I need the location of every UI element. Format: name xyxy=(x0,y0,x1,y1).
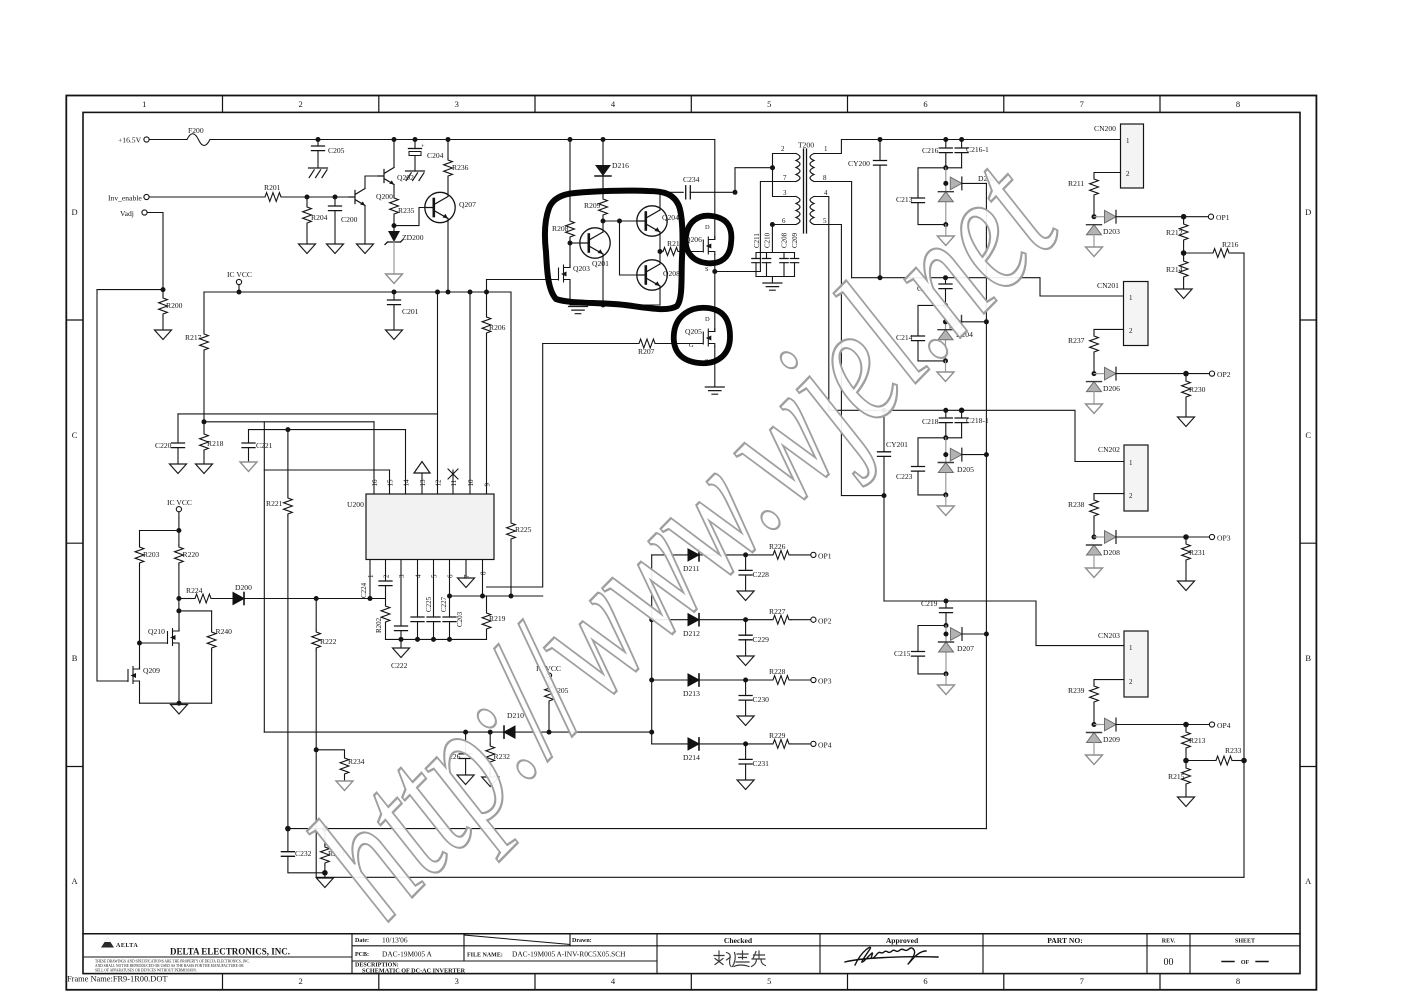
svg-text:C215: C215 xyxy=(894,649,911,658)
svg-text:CN203: CN203 xyxy=(1098,631,1120,640)
mosfet Q206 xyxy=(685,224,715,273)
svg-text:1: 1 xyxy=(367,574,375,578)
pin 5 capacitor C227 xyxy=(427,560,448,640)
column numbers top xyxy=(142,99,1240,109)
wire CN203 pin2 to R239 xyxy=(1094,680,1124,684)
svg-text:C224: C224 xyxy=(360,582,368,598)
svg-text:R240: R240 xyxy=(216,627,233,636)
node OP2 xyxy=(1183,371,1189,377)
wire Q207 emitter to IC VCC rail xyxy=(447,219,449,293)
wire T200 pin2 pin3 xyxy=(773,154,797,197)
svg-text:3: 3 xyxy=(398,574,406,578)
svg-text:5: 5 xyxy=(767,99,771,109)
chassis ground under C204 xyxy=(406,171,425,181)
svg-text:D207: D207 xyxy=(957,644,974,653)
wire pin8 net up to R207 xyxy=(487,344,543,588)
svg-text:CY200: CY200 xyxy=(848,159,870,168)
capacitor C216-1 xyxy=(955,140,989,168)
hand-drawn marker blob around Q201 Q204 Q208 xyxy=(545,191,683,310)
ground under R234 xyxy=(336,781,353,791)
svg-text:R221: R221 xyxy=(266,499,283,508)
wire D204 to feedback bus xyxy=(962,321,987,323)
node R210 xyxy=(658,249,663,254)
resistor R240 xyxy=(207,611,232,703)
ground under C200 xyxy=(327,244,344,254)
node D204 anode xyxy=(943,319,948,324)
capacitor C205 xyxy=(312,140,345,169)
node rail dots xyxy=(316,137,606,142)
node R203 R220 xyxy=(176,528,181,533)
svg-text:R206: R206 xyxy=(489,323,506,332)
svg-text:D208: D208 xyxy=(1103,548,1120,557)
IC VCC rail xyxy=(204,291,511,293)
node CY201 top xyxy=(882,408,887,413)
svg-text:SCHEMATIC OF DC-AC INVERTER: SCHEMATIC OF DC-AC INVERTER xyxy=(362,968,466,975)
wire D214 to OP4 row xyxy=(699,743,771,745)
zener diode ZD200 xyxy=(385,226,424,274)
svg-text:C209: C209 xyxy=(791,232,799,248)
svg-text:C: C xyxy=(72,430,78,440)
connector CN202 xyxy=(1098,445,1148,511)
pin 4 capacitor C225 xyxy=(411,560,433,640)
title block verticals xyxy=(352,934,1190,974)
svg-text:1: 1 xyxy=(1126,137,1130,145)
svg-text:R220: R220 xyxy=(183,550,200,559)
svg-text:7: 7 xyxy=(463,574,471,578)
terminal Vadj xyxy=(120,209,147,218)
capacitor C230 xyxy=(739,680,769,716)
wire midpoint to Q205 drain xyxy=(714,272,716,332)
title block frame xyxy=(83,933,1300,935)
wire T200 pin1 to rail xyxy=(814,140,1121,154)
svg-text:11: 11 xyxy=(450,479,458,486)
svg-text:C205: C205 xyxy=(328,146,345,155)
node C218 dots xyxy=(943,408,964,441)
wire D210 row xyxy=(264,731,651,733)
pin 10 xyxy=(467,292,475,494)
diode D204 xyxy=(950,316,973,340)
ground under C220 xyxy=(170,464,187,474)
zener below D206 xyxy=(1087,382,1102,392)
svg-text:2: 2 xyxy=(1129,327,1133,335)
transistor Q202 xyxy=(378,168,414,185)
resistor R203 xyxy=(135,531,160,644)
svg-text:3: 3 xyxy=(455,976,459,986)
capacitor C208 xyxy=(780,232,789,276)
row letters left xyxy=(72,207,79,886)
ground under C201 xyxy=(386,330,403,340)
pin 15 xyxy=(387,470,395,494)
svg-text:C230: C230 xyxy=(753,695,770,704)
terminal IC VCC left xyxy=(167,498,192,531)
capacitor C229 xyxy=(739,620,769,656)
wire gate drive branch xyxy=(263,422,265,732)
resistor R202 xyxy=(375,599,390,640)
svg-text:15: 15 xyxy=(387,479,395,487)
resistor R234 xyxy=(314,747,365,781)
resistor R220 xyxy=(175,531,200,599)
svg-text:C218-1: C218-1 xyxy=(966,416,989,425)
resistor R236 xyxy=(444,140,469,197)
ground under R215 xyxy=(1178,797,1195,807)
capacitor C216 xyxy=(922,140,952,168)
svg-text:CN201: CN201 xyxy=(1097,281,1119,290)
node C216 junction xyxy=(943,165,948,170)
svg-text:R222: R222 xyxy=(320,637,337,646)
terminal OP1 out xyxy=(811,552,832,561)
diode D206 xyxy=(1094,367,1120,393)
diode D213 xyxy=(652,674,700,698)
svg-text:PCB:: PCB: xyxy=(355,952,369,958)
wire D203 to OP1 xyxy=(1116,216,1184,218)
net lamp3 horizontal xyxy=(829,410,1124,461)
resistor R224 xyxy=(179,586,233,603)
node D207 bus xyxy=(984,632,989,637)
terminal OP1 xyxy=(1184,213,1230,222)
resistor R200 xyxy=(159,290,183,330)
transistor Q208 xyxy=(637,260,680,290)
resistor R226 xyxy=(769,542,811,559)
svg-text:OP4: OP4 xyxy=(1217,721,1231,730)
wire Q209 drain up xyxy=(139,643,141,669)
svg-text:PART NO:: PART NO: xyxy=(1047,936,1083,945)
svg-text:DAC-19M005 A: DAC-19M005 A xyxy=(382,950,433,959)
wire C234 right xyxy=(690,191,735,193)
svg-text:C229: C229 xyxy=(753,635,770,644)
wire D211 to OP1 row xyxy=(699,554,771,556)
svg-text:R216: R216 xyxy=(1222,240,1239,249)
diode D208 xyxy=(1094,531,1120,557)
ground under C215 xyxy=(938,674,955,695)
svg-text:R208: R208 xyxy=(552,224,569,233)
capacitor C200 xyxy=(329,197,358,244)
svg-text:5: 5 xyxy=(767,976,771,986)
svg-text:Q207: Q207 xyxy=(459,200,476,209)
diode D207 xyxy=(951,628,975,653)
wire T200 pin6 to cap bank xyxy=(772,225,796,253)
svg-text:OP3: OP3 xyxy=(1217,534,1231,543)
drawing frame outer border xyxy=(66,96,1316,990)
terminal OP4 xyxy=(1186,721,1231,730)
svg-text:+16.5V: +16.5V xyxy=(118,136,142,145)
node R209 Q204 base xyxy=(601,219,606,224)
bar ground under cap bank xyxy=(763,283,782,290)
node Q208 base tap xyxy=(617,219,622,224)
wire Q208 base xyxy=(620,221,639,275)
wire Inv_enable to R201 xyxy=(149,196,263,198)
svg-text:3: 3 xyxy=(783,189,787,197)
diode D216 xyxy=(595,140,629,198)
svg-text:D: D xyxy=(705,316,710,323)
approved signature xyxy=(845,947,938,965)
svg-text:R224: R224 xyxy=(186,586,203,595)
wire feedback right bus xyxy=(1243,253,1245,877)
mosfet Q210 xyxy=(148,627,179,646)
row letters right xyxy=(1305,207,1312,886)
wire +16.5V rail xyxy=(210,139,715,141)
wire Q204 collector to C234 net xyxy=(660,192,683,210)
svg-text:R236: R236 xyxy=(452,163,469,172)
wire C218-1 join xyxy=(946,437,962,439)
sheet label and value xyxy=(1222,939,1268,967)
svg-text:AND SHALL NOT BE REPRODUCED OR: AND SHALL NOT BE REPRODUCED OR USED AS T… xyxy=(95,964,244,968)
svg-text:C200: C200 xyxy=(341,215,358,224)
mosfet Q209 xyxy=(120,666,161,684)
svg-text:R213: R213 xyxy=(1189,736,1206,745)
wire Q201 collector xyxy=(602,221,604,232)
svg-text:B: B xyxy=(1305,653,1311,663)
terminal OP3 out xyxy=(811,677,832,686)
svg-text:OP3: OP3 xyxy=(818,677,832,686)
wire CY201 down to lamp4 net xyxy=(883,496,885,601)
svg-text:D203: D203 xyxy=(1103,227,1120,236)
svg-text:14: 14 xyxy=(403,479,411,487)
node CY200 bottom xyxy=(878,275,883,280)
pin 6 capacitor C203 xyxy=(443,560,464,640)
svg-text:R203: R203 xyxy=(143,550,160,559)
svg-text:U200: U200 xyxy=(347,500,364,509)
svg-text:R228: R228 xyxy=(769,667,786,676)
node D208 xyxy=(1092,535,1097,540)
svg-text:2: 2 xyxy=(781,145,785,153)
hand-drawn marker blob around Q205 xyxy=(674,308,730,363)
node C234 net corner xyxy=(733,190,738,195)
svg-text:C220: C220 xyxy=(155,441,172,450)
ground under ZD200 xyxy=(386,274,403,284)
svg-text:D205: D205 xyxy=(957,465,974,474)
capacitor C204 electrolytic xyxy=(409,140,444,172)
capacitor C220 xyxy=(155,414,185,464)
node D205 bus xyxy=(984,452,989,457)
pin 11 no connect xyxy=(448,469,458,494)
capacitor CY201 xyxy=(878,410,909,495)
svg-text:ZD200: ZD200 xyxy=(402,233,424,242)
svg-text:OP4: OP4 xyxy=(818,741,832,750)
ground under C213 xyxy=(937,225,954,246)
svg-text:+: + xyxy=(421,143,425,150)
svg-text:R204: R204 xyxy=(311,213,328,222)
resistor R233 xyxy=(1186,746,1244,765)
svg-text:Q203: Q203 xyxy=(573,264,590,273)
terminal IC VCC xyxy=(227,270,252,292)
wire Q203 gate xyxy=(487,279,551,281)
transformer T200 secondary winding bottom xyxy=(810,189,828,225)
title block row lines xyxy=(83,946,1300,961)
node R223 bottom xyxy=(322,870,328,876)
terminal OP2 xyxy=(1186,370,1231,379)
svg-text:1: 1 xyxy=(1129,459,1133,467)
svg-text:R229: R229 xyxy=(769,731,786,740)
border row tick marks left xyxy=(66,320,83,767)
node pin6 xyxy=(770,222,775,227)
node OP3 xyxy=(1183,534,1189,540)
svg-text:2: 2 xyxy=(383,574,391,578)
svg-text:C222: C222 xyxy=(391,661,408,670)
transistor Q200 xyxy=(349,189,393,206)
capacitor C213 xyxy=(896,168,946,225)
resistor R214 xyxy=(1166,253,1188,289)
svg-text:C227: C227 xyxy=(440,596,448,612)
svg-text:DAC-19M005 A-INV-R0C5X05.SCH: DAC-19M005 A-INV-R0C5X05.SCH xyxy=(512,950,626,959)
ground under R230 xyxy=(1178,417,1195,427)
wire Q209 source down xyxy=(139,684,141,703)
svg-text:Q205: Q205 xyxy=(685,327,702,336)
node pin1 D200 net xyxy=(368,596,373,601)
svg-text:R202: R202 xyxy=(375,617,383,633)
resistor R231 xyxy=(1182,537,1206,581)
net lamp4 horizontal xyxy=(884,601,1124,646)
capacitor C218 xyxy=(922,410,952,438)
resistor R216 xyxy=(1184,240,1244,257)
svg-text:6: 6 xyxy=(782,217,786,225)
svg-text:2: 2 xyxy=(298,976,302,986)
diode D210 xyxy=(504,711,524,738)
svg-text:A: A xyxy=(72,876,79,886)
svg-text:Q208: Q208 xyxy=(663,269,680,278)
diode D211 xyxy=(652,549,700,573)
svg-text:OP2: OP2 xyxy=(818,616,832,625)
svg-text:1: 1 xyxy=(1129,294,1133,302)
wire h_c C221 to pin14 xyxy=(249,429,406,431)
wire Q210 source down xyxy=(178,646,180,703)
wire C216-1 join xyxy=(946,167,962,169)
resistor R238 xyxy=(1068,498,1098,537)
wire Vadj down xyxy=(147,213,163,290)
svg-text:R217: R217 xyxy=(185,333,202,342)
svg-text:D: D xyxy=(1305,207,1311,217)
wire Q210 drain up xyxy=(178,611,180,631)
ground under C228 xyxy=(737,591,754,601)
wire D209 to OP4 xyxy=(1116,724,1186,726)
diode D200 xyxy=(233,583,252,605)
svg-text:D209: D209 xyxy=(1103,735,1120,744)
svg-text:6: 6 xyxy=(447,574,455,578)
svg-text:00: 00 xyxy=(1164,957,1174,968)
wire to R203 xyxy=(140,530,179,532)
svg-text:OP1: OP1 xyxy=(818,552,832,561)
svg-text:C211: C211 xyxy=(753,233,761,248)
resistor R210 xyxy=(660,239,684,256)
resistor R230 xyxy=(1182,374,1206,417)
svg-text:5: 5 xyxy=(431,574,439,578)
svg-text:R201: R201 xyxy=(264,183,281,192)
node D207 anode xyxy=(944,632,949,637)
svg-text:7: 7 xyxy=(1080,99,1084,109)
wire D208 to OP3 xyxy=(1116,536,1186,538)
svg-text:R227: R227 xyxy=(769,607,786,616)
svg-text:R214: R214 xyxy=(1166,265,1183,274)
zener below D209 xyxy=(1087,733,1102,743)
svg-text:R237: R237 xyxy=(1068,336,1085,345)
node R208 Q201 base xyxy=(568,241,573,246)
decoupling rail under U200 xyxy=(386,638,487,640)
svg-text:OF: OF xyxy=(1241,960,1250,966)
svg-text:8: 8 xyxy=(1236,976,1240,986)
wire Q206 source to midpoint xyxy=(714,255,716,272)
mosfet Q203 xyxy=(550,264,590,283)
wire D207 to feedback bus xyxy=(962,633,986,635)
resistor R211 xyxy=(1068,177,1098,217)
file name label and value xyxy=(467,950,626,959)
drawing frame inner border xyxy=(83,112,1300,973)
connector CN200 xyxy=(1094,124,1144,188)
svg-text:2: 2 xyxy=(1126,170,1130,178)
wire T200 pin5 down xyxy=(814,225,884,496)
ground under D206 xyxy=(1086,392,1103,414)
border row tick marks right xyxy=(1300,320,1316,767)
svg-text:Date:: Date: xyxy=(355,938,369,944)
wire top pin row link xyxy=(264,469,389,471)
wire Q204 emitter xyxy=(659,232,661,252)
wire Q208 collector xyxy=(659,252,661,265)
svg-text:Vadj: Vadj xyxy=(120,209,134,218)
cap bank bottom bus xyxy=(756,277,795,283)
node pin8 net dots xyxy=(447,594,514,599)
svg-text:1: 1 xyxy=(1129,644,1133,652)
resistor R213 xyxy=(1182,725,1206,761)
svg-text:C: C xyxy=(1305,430,1311,440)
transformer T200 secondary winding top xyxy=(810,145,828,182)
svg-text:R233: R233 xyxy=(1225,746,1242,755)
capacitor C214 xyxy=(896,305,946,361)
wire Q201 base xyxy=(570,242,581,244)
node C228 xyxy=(743,552,748,557)
wire bottom rail 1 xyxy=(288,828,987,830)
ground under C226 xyxy=(457,775,474,785)
resistor R207 xyxy=(543,339,695,356)
node D209 xyxy=(1092,722,1097,727)
svg-text:8: 8 xyxy=(480,571,488,575)
svg-text:4: 4 xyxy=(415,574,423,578)
svg-text:C201: C201 xyxy=(402,307,419,316)
node R212 R214 R216 xyxy=(1181,250,1187,256)
svg-text:9: 9 xyxy=(484,483,492,487)
connector CN201 xyxy=(1097,281,1148,346)
wire R201 to Q200 base xyxy=(283,196,349,198)
node C231 xyxy=(743,741,748,746)
svg-text:6: 6 xyxy=(923,99,927,109)
zener below D204 xyxy=(938,330,953,340)
resistor R217 xyxy=(185,292,208,422)
node OP1 xyxy=(1181,214,1187,220)
ground under D209 xyxy=(1086,743,1103,765)
node diode bus dots xyxy=(649,617,654,682)
node ground rail xyxy=(177,701,182,706)
svg-text:R218: R218 xyxy=(207,439,224,448)
ground under C221 xyxy=(240,462,257,472)
capacitor C217 xyxy=(917,278,952,306)
pin 8 xyxy=(480,560,488,597)
svg-text:4: 4 xyxy=(824,189,828,197)
resistor R205 xyxy=(545,678,569,732)
node R220 R224 xyxy=(176,596,181,601)
pin 3 xyxy=(395,560,408,640)
svg-text:R200: R200 xyxy=(166,301,183,310)
svg-text:Checked: Checked xyxy=(724,936,753,945)
pin 9 with R206 xyxy=(482,280,506,495)
terminal OP3 xyxy=(1186,534,1231,543)
wire CN201 pin2 to R237 xyxy=(1094,329,1124,334)
terminal OP2 out xyxy=(811,616,832,625)
svg-text:C219: C219 xyxy=(921,599,938,608)
resistor R229 xyxy=(769,731,811,748)
capacitor C218-1 xyxy=(955,410,989,438)
pin 2 capacitor C224 xyxy=(370,560,392,599)
wire pin8 net xyxy=(450,595,543,597)
pin 13 power triangle xyxy=(414,462,430,495)
svg-text:REV.: REV. xyxy=(1162,939,1176,945)
capacitor CY200 xyxy=(848,140,887,278)
